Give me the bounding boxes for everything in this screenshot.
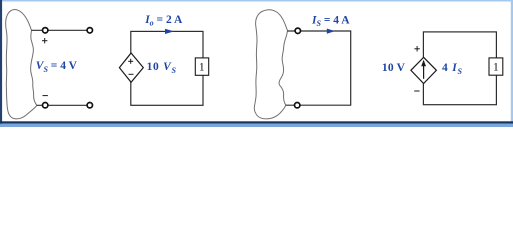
svg-text:1: 1 — [493, 61, 499, 73]
svg-text:10 V: 10 V — [382, 62, 406, 74]
svg-text:VS = 4 V: VS = 4 V — [36, 60, 78, 74]
svg-text:1: 1 — [199, 61, 205, 73]
